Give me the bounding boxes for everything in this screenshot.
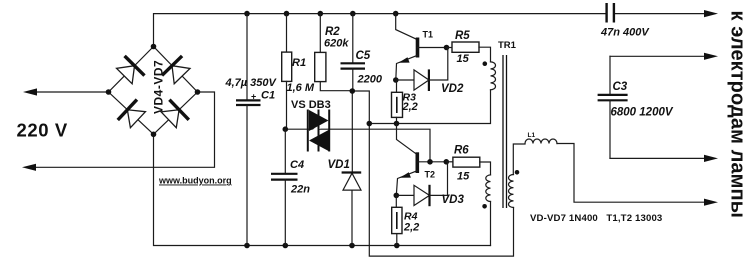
capacitor C5 bbox=[341, 14, 366, 91]
node T1 base bbox=[444, 45, 450, 51]
node T2 base line B bbox=[427, 159, 433, 165]
resistor R4 bbox=[392, 195, 402, 245]
label C4 bbox=[290, 159, 310, 196]
label T2 bbox=[425, 170, 436, 180]
transistor T2 bbox=[396, 124, 446, 196]
label R5 bbox=[455, 30, 470, 65]
svg-text:TR1: TR1 bbox=[498, 40, 517, 51]
capacitor C1 bbox=[236, 14, 261, 246]
node T2 emitter bbox=[394, 193, 400, 199]
node top rail R1 bbox=[284, 11, 290, 17]
transistor T1 bbox=[396, 14, 447, 80]
diode VD3 bbox=[396, 162, 447, 206]
node R3 bottom bbox=[394, 121, 400, 127]
node bottom rail R4 bbox=[394, 243, 400, 249]
label C3 bbox=[611, 81, 674, 119]
svg-text:C5: C5 bbox=[356, 50, 371, 62]
wire top rail DC+ bbox=[154, 14, 708, 47]
node bottom rail VD1 bbox=[349, 243, 355, 249]
label VD2 bbox=[441, 83, 464, 95]
svg-text:C1: C1 bbox=[261, 90, 275, 102]
svg-text:15: 15 bbox=[457, 53, 470, 65]
diode bridge bottom-right bbox=[159, 100, 189, 130]
label TR1 bbox=[498, 40, 517, 51]
label R3 bbox=[402, 92, 418, 114]
node top rail C5 bbox=[350, 11, 356, 17]
arrow 220V terminal 1 bbox=[23, 88, 37, 95]
svg-text:C3: C3 bbox=[613, 81, 628, 93]
label VD4-VD7 rotated bbox=[152, 60, 166, 114]
label www.budyon.org bbox=[158, 176, 232, 186]
diode VD1 bbox=[342, 173, 362, 246]
inductor L1 choke bbox=[525, 139, 707, 202]
resistor R3 bbox=[392, 80, 403, 124]
svg-text:VD2: VD2 bbox=[441, 83, 464, 95]
svg-text:VD-VD7 1N400 T1,T2 13003: VD-VD7 1N400 T1,T2 13003 bbox=[530, 213, 662, 224]
node bottom rail C4 bbox=[283, 243, 289, 249]
wire C3 top to electrode 2 bbox=[610, 55, 707, 57]
svg-text:220 V: 220 V bbox=[17, 120, 68, 141]
svg-text:VD1: VD1 bbox=[328, 159, 350, 171]
svg-text:R2: R2 bbox=[325, 26, 340, 38]
arrow lamp electrode 3 bbox=[704, 155, 718, 162]
capacitor C3 bbox=[598, 56, 628, 158]
label R4 bbox=[403, 211, 419, 234]
svg-text:47n 400V: 47n 400V bbox=[600, 27, 650, 39]
svg-text:R5: R5 bbox=[455, 30, 470, 42]
node bridge top bbox=[151, 44, 157, 50]
svg-text:2,2: 2,2 bbox=[403, 222, 419, 234]
wire C5 junction to half-bridge midpoint bbox=[352, 91, 369, 124]
resistor R6 bbox=[446, 157, 490, 175]
node T2 base VD3 bbox=[444, 159, 450, 165]
svg-text:620k: 620k bbox=[324, 38, 349, 50]
svg-text:L1: L1 bbox=[528, 132, 536, 139]
label L1 bbox=[528, 132, 536, 139]
node T1 emitter bbox=[393, 77, 399, 83]
arrow lamp electrode 1 bbox=[704, 10, 718, 17]
node midpoint bbox=[367, 121, 373, 127]
arrow lamp electrode 2 bbox=[704, 53, 718, 60]
diode bridge top-right bbox=[162, 56, 192, 86]
resistor R1 bbox=[282, 14, 292, 130]
node top rail R2 bbox=[318, 11, 324, 17]
capacitor 47n 400V bbox=[607, 3, 614, 23]
svg-text:VS DB3: VS DB3 bbox=[291, 99, 331, 111]
svg-text:4,7µ 350V: 4,7µ 350V bbox=[225, 77, 278, 89]
svg-text:www.budyon.org: www.budyon.org bbox=[158, 176, 232, 186]
arrow 220V terminal 2 bbox=[22, 164, 36, 171]
svg-text:VD3: VD3 bbox=[442, 194, 465, 206]
transformer TR1 core bbox=[503, 55, 507, 208]
capacitor C4 bbox=[271, 129, 298, 245]
svg-text:6800 1200V: 6800 1200V bbox=[611, 107, 674, 119]
label C5 bbox=[356, 50, 383, 86]
svg-text:C4: C4 bbox=[290, 159, 304, 171]
diode bridge bottom-left bbox=[118, 100, 148, 130]
label R2 bbox=[324, 26, 349, 50]
arrow lamp electrode 4 bbox=[704, 199, 718, 206]
svg-text:+: + bbox=[251, 92, 256, 102]
wire bridge right node to input line 2 bbox=[30, 92, 215, 167]
svg-text:T1: T1 bbox=[423, 30, 434, 40]
node R1 bottom bbox=[283, 126, 289, 132]
label 47n 400V bbox=[600, 27, 650, 39]
wire line A midpoint to winding1 bottom bbox=[369, 90, 490, 124]
svg-text:к электродам лампы: к электродам лампы bbox=[727, 11, 749, 218]
label к электродам лампы rotated bbox=[727, 11, 749, 218]
label C1 value bbox=[225, 77, 278, 102]
transformer TR1 secondary winding bbox=[509, 144, 526, 208]
svg-text:2200: 2200 bbox=[357, 74, 383, 86]
node bottom rail C1 bbox=[244, 243, 250, 249]
svg-text:22n: 22n bbox=[290, 184, 310, 196]
resistor R5 bbox=[447, 42, 491, 62]
label VD3 bbox=[442, 194, 465, 206]
diac VS DB3 bbox=[305, 110, 333, 152]
svg-text:2,2: 2,2 bbox=[402, 101, 418, 113]
node C5 junction bbox=[350, 88, 356, 94]
label VS DB3 bbox=[291, 99, 331, 111]
svg-text:VD4-VD7: VD4-VD7 bbox=[152, 60, 166, 114]
wire line B diac to T2 base bbox=[285, 129, 430, 162]
svg-text:R6: R6 bbox=[454, 145, 469, 157]
diode bridge top-left bbox=[114, 56, 144, 86]
svg-text:R1: R1 bbox=[292, 57, 306, 69]
node top rail C1 bbox=[244, 11, 250, 17]
label parts list VD-VD7 1N400 T1,T2 13003 bbox=[530, 213, 662, 224]
wire midpoint down to lamp return bbox=[369, 124, 513, 257]
label R6 bbox=[454, 145, 470, 183]
transformer TR1 winding 1 bbox=[483, 61, 496, 89]
resistor R2 bbox=[315, 14, 353, 91]
label 220 V bbox=[17, 120, 68, 141]
diode VD2 bbox=[396, 48, 448, 92]
node bridge bottom bbox=[151, 132, 157, 138]
node bridge left bbox=[106, 89, 112, 95]
wire 220V input line 1 bbox=[31, 91, 109, 93]
wire C3 bottom to electrode 3 bbox=[610, 157, 707, 159]
wire bridge bottom to bottom rail bbox=[154, 134, 491, 245]
wire C5 junction down to VD1 bbox=[351, 91, 353, 172]
label VD1 bbox=[328, 159, 350, 171]
transformer TR1 winding 2 bbox=[482, 175, 490, 246]
node top rail T1 collector bbox=[393, 11, 399, 17]
svg-text:15: 15 bbox=[457, 171, 470, 183]
bridge rectifier frame VD4-VD7 bbox=[109, 47, 198, 135]
label R1 bbox=[287, 57, 315, 94]
node bridge right bbox=[195, 89, 201, 95]
svg-text:1,6 M: 1,6 M bbox=[287, 82, 315, 94]
svg-text:T2: T2 bbox=[425, 170, 436, 180]
label T1 bbox=[423, 30, 434, 40]
